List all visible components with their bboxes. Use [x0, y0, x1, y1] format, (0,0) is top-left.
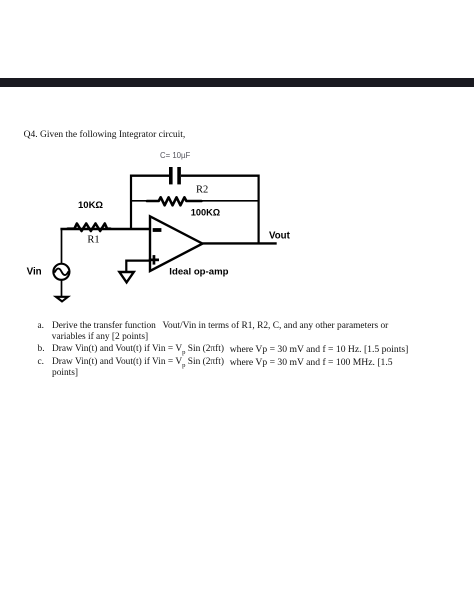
item a line 2	[0, 331, 1, 333]
source Vin (AC) circle with sine	[53, 264, 69, 280]
label C=10uF	[160, 151, 191, 160]
label Ideal op-amp	[169, 266, 228, 277]
op-amp U1 triangle	[150, 216, 203, 271]
wire: op-amp output	[203, 242, 277, 244]
wire: top feedback, right of capacitor	[181, 174, 259, 176]
capacitor C1 plates	[169, 167, 181, 184]
svg-text:Vin: Vin	[27, 266, 42, 277]
wire: non-inverting input to ground, vertical	[125, 260, 127, 273]
resistor R2	[147, 197, 201, 205]
svg-text:R2: R2	[196, 185, 208, 196]
wire: top feedback, left of capacitor	[131, 174, 169, 176]
item c line 2	[0, 367, 1, 369]
svg-text:R1: R1	[87, 234, 99, 245]
label 100KOhm	[191, 207, 220, 217]
item b	[0, 343, 1, 345]
op-amp non-inverting input plus symbol	[149, 255, 159, 265]
top black divider bar	[0, 78, 474, 87]
wire: R2 branch right lead	[202, 200, 259, 202]
wire: Vin source to ground	[61, 280, 63, 296]
resistor R1	[68, 224, 111, 232]
wire: Vin branch vertical upper	[61, 228, 63, 264]
wire: input line from Vin corner to op-amp inverting input	[60, 228, 150, 230]
wire: R2 branch left lead	[130, 200, 148, 202]
wire: non-inverting input to ground, horizontal	[126, 260, 150, 262]
label Vout	[269, 231, 291, 242]
question heading text	[24, 130, 186, 140]
op-amp inverting input minus symbol	[153, 228, 162, 232]
label R1	[87, 234, 99, 245]
svg-text:100KΩ: 100KΩ	[191, 207, 220, 217]
svg-text:C= 10µF: C= 10µF	[160, 151, 191, 160]
svg-text:10KΩ: 10KΩ	[78, 200, 103, 211]
label 10KOhm	[78, 200, 103, 211]
wire: left vertical of feedback loop	[130, 175, 132, 230]
ground below Vin source	[53, 296, 71, 303]
label R2	[196, 185, 208, 196]
item c line 1	[0, 356, 1, 358]
label Vin	[27, 266, 42, 277]
wire: right vertical of feedback loop	[258, 175, 260, 244]
item a line 1	[0, 320, 1, 322]
ground at op-amp non-inverting input	[119, 272, 133, 282]
svg-text:Vout: Vout	[269, 231, 291, 242]
svg-text:Ideal op-amp: Ideal op-amp	[169, 266, 228, 277]
